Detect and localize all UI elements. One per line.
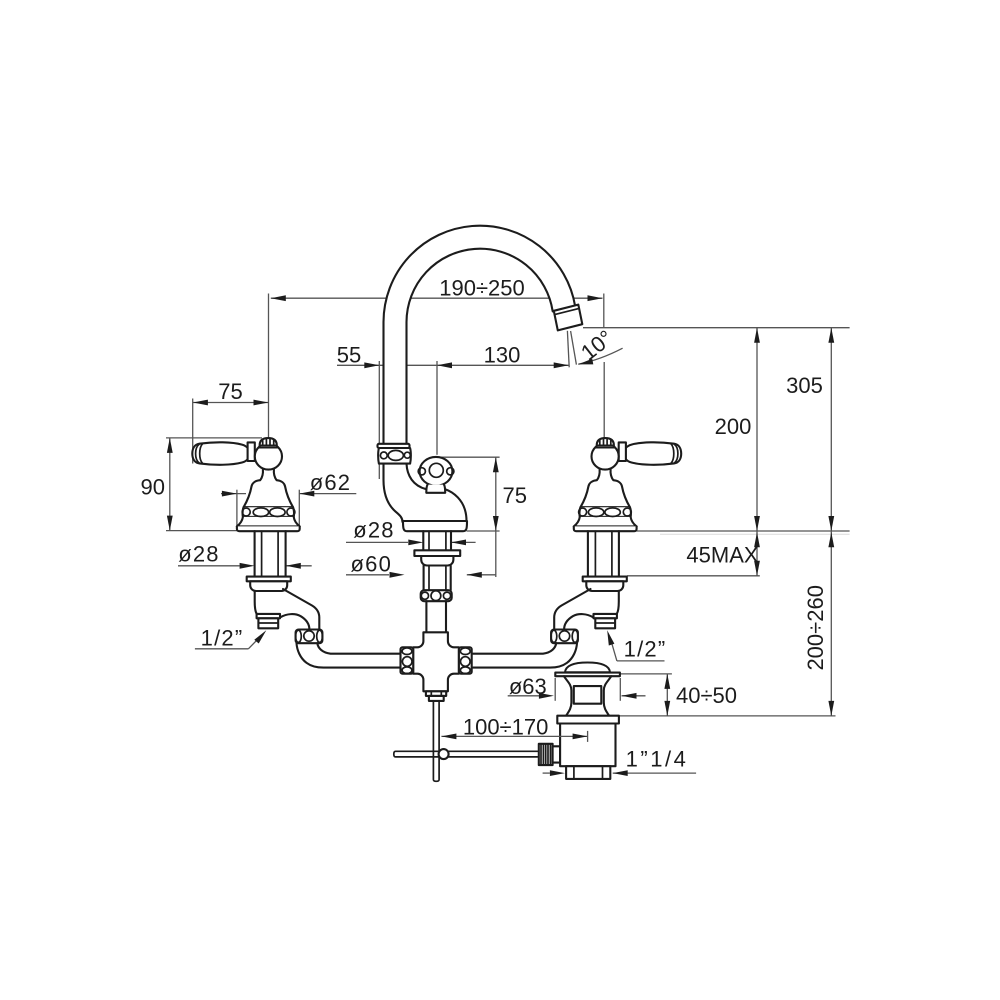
- dim 200÷260: [619, 531, 836, 716]
- left handle ferrule: [248, 442, 255, 461]
- dim 200: [756, 328, 758, 531]
- pop-up body: [560, 724, 615, 767]
- svg-text:75: 75: [218, 379, 242, 404]
- svg-text:ø62: ø62: [310, 470, 352, 495]
- right handle grip lever: [624, 442, 681, 464]
- svg-text:ø63: ø63: [509, 674, 547, 699]
- svg-text:305: 305: [786, 373, 823, 398]
- dim 75 center: [437, 457, 500, 577]
- pop-up tailpipe 1"1/4: [566, 766, 610, 779]
- pop-up trumpet neck: [564, 676, 611, 716]
- right 1/2 inch stub: [594, 614, 617, 618]
- svg-text:1”1/4: 1”1/4: [626, 747, 689, 772]
- pop-up horizontal rod: [394, 751, 538, 757]
- right handle neck: [597, 469, 613, 480]
- dim 130: [437, 361, 569, 455]
- svg-text:75: 75: [503, 483, 527, 508]
- dim 45MAX: [627, 531, 760, 576]
- dim 305: [830, 328, 832, 531]
- spout aerator tip: [554, 305, 583, 331]
- center washer: [414, 550, 460, 556]
- left 1/2 inch stub: [257, 614, 280, 618]
- dim 75 left handle: [193, 399, 269, 464]
- spout collar band: [378, 444, 410, 448]
- svg-text:ø28: ø28: [353, 517, 395, 542]
- left handle head: [255, 443, 282, 469]
- ball joint: [420, 457, 453, 486]
- right bend to manifold: [473, 643, 577, 667]
- dim ø28 left: [178, 565, 312, 567]
- right handle head: [592, 443, 619, 469]
- faucet foot: [403, 521, 468, 531]
- pop-up waste dome cap: [565, 663, 610, 673]
- center nut: [421, 556, 453, 566]
- spout collar decorated: [378, 448, 411, 464]
- dim 10 degrees: [567, 331, 622, 368]
- dim 40÷50: [620, 674, 672, 716]
- pop-up lower flange: [557, 716, 619, 724]
- left handle crown screw cap: [260, 438, 277, 446]
- pop-up top flange: [555, 673, 620, 677]
- dim ø62: [221, 490, 356, 531]
- left handle neck: [260, 469, 276, 480]
- svg-text:130: 130: [484, 343, 521, 368]
- left handle bell escutcheon: [244, 480, 293, 507]
- svg-text:ø28: ø28: [178, 542, 220, 567]
- svg-text:200: 200: [715, 414, 752, 439]
- svg-text:40÷50: 40÷50: [676, 683, 737, 708]
- right union nut: [551, 630, 578, 644]
- cross right nut: [459, 647, 472, 673]
- faucet body: [384, 464, 403, 522]
- dim 190÷250: [269, 294, 604, 439]
- right handle crown screw cap: [597, 438, 614, 446]
- dim ø28 center: [346, 541, 476, 543]
- right handle shank threads: [618, 531, 620, 576]
- ball neck: [426, 485, 445, 493]
- wire: extension line y=327.7 outlet level: [583, 327, 850, 329]
- svg-text:90: 90: [141, 474, 165, 499]
- center shank lower: [424, 566, 451, 591]
- right handle nut: [586, 581, 623, 591]
- dim ø60: [346, 574, 496, 576]
- cross fitting body: [413, 632, 459, 691]
- left handle washer: [247, 577, 291, 582]
- knurled connector: [539, 744, 553, 765]
- center pipe to cross: [426, 601, 446, 632]
- cross bottom adapter: [426, 691, 446, 696]
- right handle bell escutcheon: [581, 480, 630, 507]
- wire: deck extension line y=531 right: [637, 530, 850, 532]
- svg-text:190÷250: 190÷250: [439, 275, 525, 300]
- left handle shank threads: [254, 531, 256, 576]
- left handle nut: [250, 581, 287, 591]
- svg-text:100÷170: 100÷170: [463, 715, 549, 740]
- left handle grip lever: [192, 442, 249, 464]
- shank bottom collar: [421, 590, 452, 601]
- wire: faint guide line y=534.3: [660, 533, 850, 535]
- right handle washer: [583, 577, 627, 582]
- rod ball joint: [439, 749, 449, 759]
- cross left nut: [401, 647, 414, 673]
- dim 90: [166, 438, 262, 531]
- pop-up vertical rod: [433, 701, 439, 781]
- dim ø63: [508, 678, 646, 701]
- dim 55: [337, 361, 437, 479]
- svg-text:45MAX: 45MAX: [686, 542, 758, 567]
- right bell ovals: [623, 508, 631, 516]
- label 1/2 inch right: [610, 637, 665, 661]
- left bell ovals: [242, 508, 250, 516]
- left bend to manifold: [297, 643, 401, 667]
- right elbow pipe: [617, 591, 619, 614]
- spout gooseneck: [384, 226, 576, 447]
- pop-up overflow window: [574, 686, 602, 704]
- center shank threads: [423, 531, 451, 550]
- left union nut: [296, 630, 323, 644]
- wire: extension x=604 to right crown: [603, 362, 605, 438]
- left elbow pipe: [255, 591, 257, 614]
- svg-text:ø60: ø60: [351, 552, 393, 577]
- dim 100÷170: [441, 731, 587, 742]
- svg-text:200÷260: 200÷260: [803, 585, 828, 671]
- dim 1"1/4: [543, 772, 697, 774]
- svg-text:1/2”: 1/2”: [624, 637, 667, 662]
- svg-text:55: 55: [337, 343, 361, 368]
- svg-text:1/2”: 1/2”: [201, 626, 244, 651]
- label 1/2 inch left: [195, 638, 260, 649]
- right handle ferrule: [619, 442, 626, 461]
